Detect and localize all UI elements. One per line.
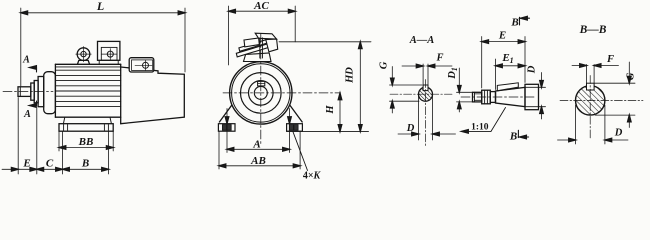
- taper shaft: shoulder cylinder: [525, 84, 539, 109]
- section cut mark B top: [520, 17, 530, 25]
- section cut mark A top: [29, 68, 36, 73]
- taper 1:10 leader: [463, 130, 492, 132]
- front view: hub circle: [248, 81, 273, 106]
- svg-text:D: D: [614, 128, 623, 139]
- side view: body top line: [55, 63, 120, 65]
- side view: foot pad: [59, 124, 113, 132]
- section A-A dimension G: [390, 67, 423, 114]
- taper shaft: key on cone: [497, 83, 518, 91]
- svg-text:1:10: 1:10: [471, 123, 489, 133]
- side view: body second top line: [55, 66, 120, 68]
- front view: centre lines: [223, 92, 341, 94]
- front view: conduit lines: [259, 38, 261, 58]
- side view: eye bolt base: [77, 60, 89, 64]
- side view: body right edge: [120, 64, 122, 123]
- dimension A: [227, 109, 290, 153]
- section B-B dimension D: [558, 105, 629, 144]
- svg-text:G: G: [626, 72, 637, 80]
- svg-text:H: H: [325, 105, 336, 115]
- front view: rim circle: [232, 64, 290, 122]
- svg-text:C: C: [46, 158, 54, 170]
- svg-text:HD: HD: [345, 67, 356, 84]
- svg-text:4×K: 4×K: [303, 171, 322, 182]
- side view: fan cowl: [121, 67, 185, 124]
- dimension HD: [279, 42, 371, 132]
- svg-text:B: B: [81, 158, 89, 170]
- svg-text:D: D: [527, 65, 538, 74]
- section B-B dimension F: [572, 65, 619, 84]
- front view: terminal box top face: [255, 33, 276, 39]
- svg-text:E: E: [498, 30, 506, 42]
- taper shaft: centre line: [461, 96, 535, 98]
- front view: terminal box upper band: [239, 40, 267, 52]
- svg-text:G: G: [379, 61, 390, 69]
- dimension D (taper): [525, 73, 546, 120]
- svg-text:B: B: [510, 17, 518, 29]
- section A-A key: [423, 85, 428, 91]
- side view: eye bolt: [77, 48, 90, 61]
- section cut mark B bottom: [518, 130, 528, 137]
- side view: body bottom: [55, 116, 120, 118]
- front view: left foot gusset: [219, 106, 231, 123]
- svg-text:BB: BB: [78, 136, 94, 148]
- taper shaft: threaded tip: [473, 92, 482, 102]
- front view: terminal box lower band: [236, 44, 268, 57]
- svg-text:AB: AB: [250, 155, 266, 167]
- svg-text:A: A: [22, 55, 30, 66]
- section B-B centre lines: [560, 99, 643, 101]
- side view: foot webs: [63, 117, 64, 124]
- dimension H: [339, 93, 341, 131]
- section A-A centre lines: [390, 93, 452, 95]
- dimension BB: [59, 131, 113, 151]
- taper shaft: nut section: [482, 90, 491, 104]
- dimension E (taper): [482, 37, 525, 89]
- front view: ground line extension: [287, 130, 369, 132]
- svg-text:F: F: [435, 53, 443, 64]
- side view: shaft collar ring 1: [31, 83, 34, 100]
- dimension AC: [229, 6, 296, 65]
- section A-A circle: [419, 87, 433, 101]
- side view: front end-bell: [44, 72, 56, 114]
- svg-text:F: F: [606, 54, 614, 65]
- front view: terminal box lid left: [244, 38, 259, 47]
- side view: cooling fins: [55, 70, 120, 106]
- section B-B dimension G: [594, 62, 635, 128]
- leader 4xK: [293, 132, 308, 171]
- svg-text:D1: D1: [447, 67, 459, 80]
- side view: body left edge: [54, 64, 56, 117]
- front view: shaft key: [258, 81, 265, 86]
- dimension E1 (taper): [496, 59, 526, 90]
- svg-text:E: E: [22, 158, 30, 170]
- front view: terminal box saddle: [244, 53, 272, 62]
- svg-text:A: A: [23, 109, 31, 120]
- side view: shaft: [18, 87, 31, 97]
- taper shaft: neck: [490, 92, 495, 103]
- front view: terminal box right block: [266, 39, 278, 52]
- dimension E C B chain: [2, 98, 109, 175]
- side view: rear small box on cowl: [129, 58, 154, 72]
- side view: shaft centre line: [3, 91, 53, 93]
- side view: terminal box: [98, 41, 120, 60]
- dimension L: [21, 8, 185, 86]
- side view: shaft collar ring 2: [34, 81, 38, 103]
- dimension D1: [457, 68, 473, 112]
- taper shaft: cone: [496, 87, 526, 106]
- svg-text:A—A: A—A: [409, 35, 435, 46]
- section A-A dimension F: [402, 64, 452, 85]
- section A-A dimension D: [398, 96, 456, 140]
- svg-text:B: B: [509, 130, 517, 142]
- svg-text:AC: AC: [253, 0, 269, 12]
- svg-text:L: L: [96, 0, 104, 13]
- front view: shaft circle: [254, 86, 267, 99]
- front view: outer circle: [230, 62, 292, 124]
- dimension AB: [219, 131, 300, 169]
- front view: right foot pad: [287, 124, 303, 132]
- section cut mark A bottom: [29, 101, 37, 106]
- front view: middle circle: [240, 73, 281, 114]
- section B-B circle: [576, 86, 605, 115]
- svg-text:B—B: B—B: [579, 24, 607, 36]
- svg-text:D: D: [406, 123, 415, 134]
- svg-text:A: A: [252, 139, 260, 151]
- svg-text:E1: E1: [501, 52, 513, 65]
- front view: right foot gusset: [290, 106, 302, 123]
- section B-B key: [587, 83, 595, 90]
- side view: bearing cap ring 3: [38, 77, 44, 107]
- front view: left foot pad: [218, 124, 235, 132]
